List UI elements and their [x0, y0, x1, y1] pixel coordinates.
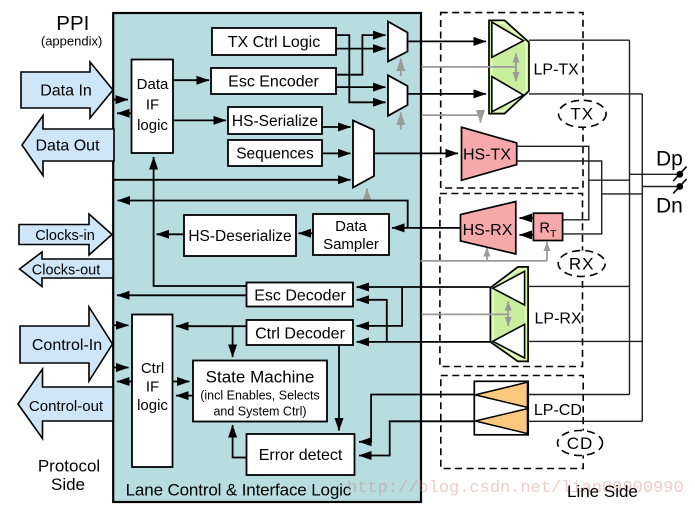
block Error detect: [247, 434, 355, 475]
wire LP-RX input n: [528, 340, 642, 342]
wire State Machine to Ctrl IF: [176, 395, 193, 397]
mux M3 serializer select: [353, 121, 374, 188]
wire TX Ctrl Logic out B to mux M1 input 2: [336, 48, 386, 50]
svg-text:Error detect: Error detect: [259, 447, 343, 464]
wire mux M3 output to HS-TX input: [374, 152, 458, 154]
dashed group box CD: [441, 376, 583, 469]
wire Data IF to Esc Encoder: [173, 79, 209, 81]
mux M1: [388, 22, 408, 62]
svg-text:State Machine: State Machine: [206, 368, 315, 387]
ellipse CD: [558, 431, 603, 456]
svg-text:RX: RX: [569, 254, 595, 273]
gray double arrow LP-RX: [507, 302, 509, 327]
gray arrow into RT: [546, 242, 548, 261]
driver LP-TX: [489, 20, 529, 113]
gray control line to HS-TX: [422, 115, 481, 122]
svg-text:TX Ctrl Logic: TX Ctrl Logic: [228, 34, 320, 51]
wire LP-TX output p: [529, 39, 630, 41]
svg-text:Control-In: Control-In: [32, 337, 102, 354]
svg-text:R: R: [540, 220, 550, 236]
svg-text:IF: IF: [146, 97, 159, 114]
gray control line to LP-TX: [422, 66, 517, 68]
svg-text:(appendix): (appendix): [41, 34, 102, 49]
dashed group box TX: [441, 13, 583, 188]
wire HS-TX output n to line: [517, 161, 602, 234]
wire Ctrl IF out to Control-out: [117, 381, 132, 383]
receiver HS-RX: [461, 202, 516, 255]
svg-text:Sampler: Sampler: [323, 236, 379, 253]
wire Data IF to HS-Serialize: [173, 119, 226, 121]
wire Data Sampler to HS-Deserialize: [299, 232, 314, 234]
pad Dp dot and switch: [673, 167, 686, 181]
svg-text:Line Side: Line Side: [567, 482, 638, 501]
svg-text:Control-out: Control-out: [29, 398, 104, 415]
wire Control-In stub 2 into Ctrl IF: [114, 367, 129, 369]
detector LP-CD: [474, 381, 528, 435]
wire Ctrl Decoder to Ctrl IF logic: [176, 325, 247, 327]
wire link p to Dp rail: [589, 179, 630, 181]
svg-text:TX: TX: [570, 105, 594, 124]
gray select stub mux M2: [400, 113, 402, 130]
PPI arrow Data Out: [22, 116, 114, 176]
wire PPI data line to mux M3 input 3: [114, 179, 351, 181]
label Protocol Side: [38, 457, 100, 495]
gray control line to LP-RX: [422, 313, 509, 315]
wire LP-RX bottom output to Ctrl Decoder input 2: [357, 341, 491, 343]
wire Dn pad stub: [642, 186, 677, 188]
PPI arrow Control-In: [20, 307, 113, 381]
wire LP-RX top output to Esc Decoder input 1: [357, 286, 491, 288]
wire mux M1 output to LP-TX top input: [408, 40, 487, 42]
svg-text:Ctrl Decoder: Ctrl Decoder: [255, 326, 345, 343]
svg-text:Clocks-out: Clocks-out: [32, 263, 101, 279]
wire Esc Decoder to Data IF logic bus: [154, 157, 247, 286]
wire Control-In stub 1 into Ctrl IF: [114, 324, 129, 326]
PPI arrow Control-out: [18, 369, 113, 439]
wire branch Ctrl Decoder to State Machine top: [232, 326, 234, 357]
svg-text:HS-Deserialize: HS-Deserialize: [188, 228, 291, 245]
wire Dn rail: [641, 94, 643, 421]
svg-text:HS-Serialize: HS-Serialize: [232, 113, 318, 130]
gray control line to HS-RX and RT: [421, 260, 548, 262]
wire TX Ctrl Logic out A to mux M2 input 2: [336, 35, 386, 102]
svg-text:Ctrl: Ctrl: [141, 360, 164, 377]
wire Esc Encoder out 1 to mux M1 input 1: [336, 35, 386, 75]
gray double arrow LP-TX: [515, 54, 517, 82]
svg-text:Clocks-in: Clocks-in: [35, 228, 95, 244]
svg-text:(incl Enables, Selects: (incl Enables, Selects: [200, 389, 320, 403]
wire RT to HS-RX p: [520, 217, 534, 219]
ellipse RX: [558, 251, 605, 277]
svg-text:HS-RX: HS-RX: [463, 222, 513, 239]
wire Dp pad stub: [630, 173, 678, 175]
wire LP-CD input n right segment: [528, 420, 642, 422]
wire Esc Encoder out 2 to mux M2 input 1: [336, 86, 386, 88]
svg-text:PPI: PPI: [56, 12, 89, 35]
block HS-Deserialize: [184, 215, 296, 256]
gray select stub mux M1: [400, 59, 402, 77]
wire HS-Serialize to mux M3 input 1: [322, 126, 351, 128]
block Ctrl IF logic: [132, 315, 173, 468]
wire Ctrl Decoder bottom to Error detect top: [338, 345, 340, 431]
wire link n to Dn rail: [602, 193, 643, 195]
svg-text:LP-RX: LP-RX: [535, 311, 582, 328]
block Sequences: [228, 140, 322, 166]
svg-text:Side: Side: [51, 475, 85, 494]
wire LP-CD top output to Error detect: [359, 395, 474, 442]
PPI arrow Clocks-in: [19, 214, 112, 255]
receiver LP-RX: [490, 267, 528, 362]
wire Error detect to State Machine bottom: [233, 425, 247, 458]
wire HS-RX output to Data Sampler: [392, 227, 461, 229]
wire HS-Deserialize output to bus junction: [157, 233, 185, 235]
mux M2: [388, 75, 408, 116]
wire LP-RX input p: [528, 285, 629, 287]
svg-text:Protocol: Protocol: [38, 457, 100, 476]
main block Lane Control & Interface Logic: [113, 13, 421, 502]
wire Data IF out to Data Out: [117, 112, 132, 114]
wire Dp rail: [629, 40, 631, 394]
svg-text:logic: logic: [137, 117, 168, 134]
block Ctrl Decoder: [247, 320, 354, 345]
block TX Ctrl Logic: [212, 28, 336, 55]
wire branch to Esc Decoder input 2: [357, 300, 387, 342]
svg-text:Data In: Data In: [40, 83, 92, 100]
block Data Sampler: [313, 214, 389, 255]
svg-text:IF: IF: [146, 379, 159, 396]
svg-text:LP-CD: LP-CD: [534, 402, 582, 419]
block HS-Serialize: [228, 107, 322, 134]
wire mux M2 output to LP-TX bottom input: [408, 93, 487, 95]
wire Sequences to mux M3 input 2: [322, 152, 351, 154]
svg-text:LP-TX: LP-TX: [534, 62, 580, 79]
svg-text:Lane Control & Interface Logic: Lane Control & Interface Logic: [126, 481, 352, 500]
svg-text:Data Out: Data Out: [35, 138, 100, 155]
gray arrow into HS-RX: [486, 248, 488, 261]
PPI arrow Data In: [21, 62, 113, 118]
svg-text:Esc Encoder: Esc Encoder: [228, 74, 319, 91]
svg-text:T: T: [550, 228, 557, 240]
wire RX data return to PPI: [118, 201, 408, 228]
wire branch to Ctrl Decoder input 1: [357, 287, 403, 326]
wire LP-CD bottom output to Error detect: [359, 421, 474, 455]
pad Dn dot and switch: [673, 179, 686, 193]
block Data IF logic: [132, 60, 174, 154]
svg-text:and System Ctrl): and System Ctrl): [213, 405, 306, 419]
gray select stub mux M3: [366, 189, 368, 201]
svg-text:Data: Data: [335, 218, 367, 235]
PPI arrow Clocks-out: [20, 252, 114, 287]
block State Machine: [193, 361, 327, 422]
driver HS-TX: [462, 127, 517, 180]
wire Ctrl IF to State Machine: [173, 381, 190, 383]
wire LP-TX output n: [529, 93, 642, 95]
svg-text:Sequences: Sequences: [236, 146, 314, 163]
svg-text:logic: logic: [137, 397, 168, 414]
wire Esc Decoder to PPI: [117, 294, 247, 296]
wire LP-CD input p right segment: [528, 394, 629, 396]
wire RT to HS-RX n: [520, 234, 534, 236]
resistor RT termination: [533, 213, 562, 240]
wire Data In stub into Data IF: [114, 99, 129, 101]
wire HS-TX output p to line: [517, 146, 589, 220]
svg-text:HS-TX: HS-TX: [463, 147, 511, 164]
svg-text:Dn: Dn: [656, 195, 683, 218]
svg-text:Dp: Dp: [656, 148, 683, 171]
block Esc Decoder: [247, 283, 354, 307]
block Esc Encoder: [211, 68, 336, 94]
svg-text:Data: Data: [137, 76, 169, 93]
dashed group box RX: [440, 194, 583, 367]
svg-text:Esc Decoder: Esc Decoder: [254, 288, 346, 305]
ellipse TX: [559, 100, 607, 127]
svg-text:CD: CD: [567, 434, 594, 453]
